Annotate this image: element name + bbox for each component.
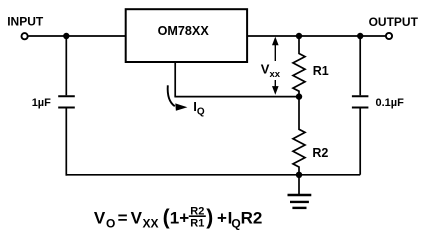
arrow Vxx bbox=[272, 37, 279, 95]
wire ground rail bbox=[66, 174, 361, 176]
wire input capacitor bottom lead bbox=[65, 108, 67, 176]
svg-text:1+: 1+ bbox=[170, 209, 189, 228]
resistor R2 bbox=[293, 97, 305, 175]
wire regulator ground lead vertical bbox=[174, 62, 176, 96]
svg-text:Vxx: Vxx bbox=[261, 62, 281, 81]
wire regulator ground lead horizontal bbox=[174, 96, 299, 98]
node mid junction bbox=[296, 93, 302, 99]
terminal input bbox=[22, 33, 28, 39]
arrow IQ bbox=[168, 85, 188, 111]
wire output capacitor top lead bbox=[359, 36, 361, 95]
formula Vo equation bbox=[94, 205, 262, 230]
ground bbox=[288, 175, 312, 208]
svg-text:R2: R2 bbox=[241, 209, 263, 228]
wire input capacitor top lead bbox=[65, 36, 67, 95]
svg-text:): ) bbox=[206, 206, 213, 229]
terminal output bbox=[386, 33, 392, 39]
svg-text:V: V bbox=[94, 209, 106, 228]
svg-text:OUTPUT: OUTPUT bbox=[369, 15, 419, 29]
svg-text:O: O bbox=[106, 217, 115, 231]
regulator U1 box bbox=[126, 9, 247, 62]
svg-text:IQ: IQ bbox=[193, 99, 205, 118]
resistor R1 bbox=[293, 36, 305, 97]
capacitor C1 1uF bbox=[58, 96, 75, 107]
capacitor C2 0.1uF bbox=[352, 96, 369, 107]
svg-text:+: + bbox=[217, 209, 227, 228]
svg-text:0.1µF: 0.1µF bbox=[376, 97, 405, 109]
node input capacitor junction bbox=[63, 33, 69, 39]
node output junction bbox=[357, 33, 363, 39]
node R1 top junction bbox=[296, 33, 302, 39]
wire regulator to output bbox=[247, 35, 385, 37]
svg-text:Q: Q bbox=[231, 217, 240, 231]
svg-text:1µF: 1µF bbox=[32, 97, 51, 109]
svg-text:INPUT: INPUT bbox=[7, 15, 44, 29]
svg-text:R2: R2 bbox=[312, 146, 328, 160]
svg-text:R1: R1 bbox=[190, 217, 204, 229]
svg-text:R1: R1 bbox=[313, 64, 329, 78]
svg-text:=: = bbox=[118, 209, 128, 228]
svg-text:(: ( bbox=[163, 206, 170, 229]
svg-text:OM78XX: OM78XX bbox=[158, 24, 210, 38]
svg-text:V: V bbox=[131, 209, 143, 228]
svg-text:XX: XX bbox=[143, 217, 159, 231]
node ground junction bbox=[296, 172, 302, 178]
wire output capacitor bottom lead bbox=[359, 108, 361, 175]
wire input to regulator bbox=[29, 35, 126, 37]
